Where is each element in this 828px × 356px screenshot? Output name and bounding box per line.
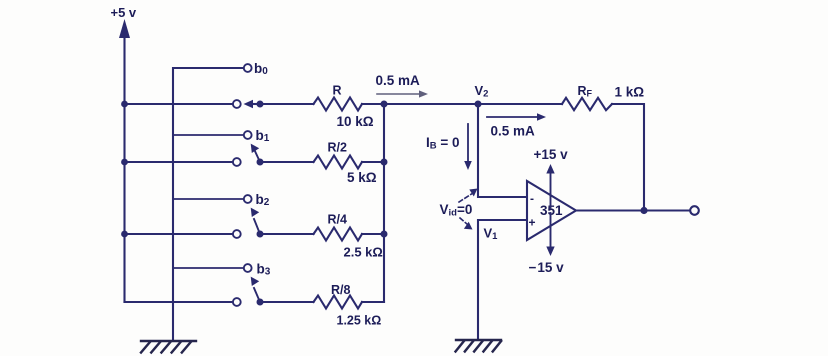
wire R/2 to summing bus (362, 161, 384, 163)
arrow 0.5 mA input current (377, 90, 428, 97)
node bus junction row0 (381, 101, 388, 108)
node b3 wiper dot (257, 299, 264, 306)
arrow IB bias current (464, 124, 472, 170)
svg-text:-: - (530, 192, 534, 206)
wire b0 stub (bus to b0 terminal) (173, 67, 243, 69)
switch b2 terminal b2 (244, 195, 252, 203)
node b2 wiper dot (257, 231, 264, 238)
+5V supply arrow (119, 19, 130, 302)
wire b2 stub (173, 198, 243, 200)
switch b1 wiper arrow (251, 144, 260, 162)
svg-text:R/2: R/2 (328, 141, 348, 155)
wire V2 down to inverting input (478, 104, 527, 197)
svg-text:1.25 kΩ: 1.25 kΩ (337, 314, 382, 328)
wire b2 wiper to resistor R/4 (260, 233, 314, 235)
node b1 wiper dot (257, 159, 264, 166)
svg-text:b1: b1 (256, 128, 270, 144)
resistor R/8 (314, 296, 363, 309)
svg-text:−15 v: −15 v (529, 260, 565, 275)
wire rail row3 (125, 301, 233, 303)
wire noninverting input to ground (478, 220, 527, 340)
wire R to summing bus (362, 103, 384, 105)
svg-text:Vid=0: Vid=0 (440, 202, 473, 219)
node V2 junction (475, 101, 482, 108)
ground G2 (456, 340, 502, 352)
wire RF to feedback corner (612, 104, 644, 211)
node b0 wiper dot (257, 101, 264, 108)
switch b1 throw terminal (233, 158, 241, 166)
svg-text:+: + (529, 216, 536, 230)
ground bus vertical wire (172, 68, 174, 341)
switch b0 terminal b0 (244, 64, 252, 72)
svg-text:V1: V1 (484, 226, 499, 243)
arrow +15 v supply (546, 164, 554, 208)
svg-text:RF: RF (578, 84, 593, 99)
svg-text:b3: b3 (257, 262, 271, 278)
op-amp U1 351 (527, 181, 576, 240)
wire bus to node V2 (384, 103, 478, 105)
switch b0 wiper arrow (244, 100, 261, 109)
node bus junction row1 (381, 159, 388, 166)
node output junction (640, 207, 647, 214)
node bus junction row2 (381, 231, 388, 238)
svg-text:2.5 kΩ: 2.5 kΩ (344, 245, 383, 260)
switch b2 throw terminal (233, 230, 241, 238)
svg-text:0.5 mA: 0.5 mA (491, 124, 536, 139)
wire b3 stub (173, 267, 243, 269)
arrow Vid lower dashed (460, 218, 473, 230)
svg-text:10 kΩ: 10 kΩ (337, 114, 374, 129)
arrow -15 v supply (546, 213, 554, 256)
switch b2 wiper arrow (251, 208, 260, 234)
svg-text:1 kΩ: 1 kΩ (615, 85, 645, 100)
wire summing bus vertical (383, 104, 385, 302)
wire rail row2 (125, 233, 233, 235)
svg-text:V2: V2 (475, 83, 489, 100)
node rail junction row0 (121, 101, 128, 108)
svg-text:+5 v: +5 v (111, 5, 137, 20)
terminal output (690, 206, 699, 215)
svg-text:R/8: R/8 (331, 283, 351, 297)
switch b3 throw terminal (233, 298, 241, 306)
switch b3 wiper arrow (251, 277, 260, 302)
wire R/8 to summing bus (362, 301, 384, 303)
switch b1 terminal b1 (244, 131, 252, 139)
resistor R/2 (314, 156, 363, 169)
arrow 0.5 mA feedback current (487, 113, 546, 121)
switch b3 terminal b3 (244, 264, 252, 272)
wire V2 to feedback resistor RF (478, 103, 562, 105)
arrow Vid upper dashed (459, 189, 478, 203)
svg-text:IB = 0: IB = 0 (426, 135, 460, 152)
switch b0 throw terminal (233, 100, 241, 108)
wire rail row0 (125, 103, 233, 105)
resistor RF (562, 98, 612, 110)
wire op-amp output (576, 209, 690, 211)
wire b3 wiper to resistor R/8 (260, 301, 314, 303)
wire rail row1 (125, 161, 233, 163)
wire R/4 to summing bus (362, 233, 384, 235)
svg-text:351: 351 (540, 203, 563, 218)
svg-text:+15 v: +15 v (534, 147, 569, 162)
svg-text:b0: b0 (254, 61, 268, 77)
node rail junction row1 (121, 159, 128, 166)
wire b1 wiper to resistor R/2 (260, 161, 314, 163)
svg-text:R: R (333, 84, 342, 98)
svg-text:0.5 mA: 0.5 mA (376, 73, 421, 88)
svg-text:b2: b2 (256, 192, 270, 208)
resistor R (314, 98, 363, 111)
resistor R/4 (314, 228, 363, 241)
wire b1 stub (173, 134, 243, 136)
wire b0 wiper to resistor R (260, 103, 314, 105)
node rail junction row2 (121, 231, 128, 238)
svg-text:5 kΩ: 5 kΩ (347, 170, 377, 185)
ground G1 (141, 341, 196, 353)
svg-text:R/4: R/4 (328, 213, 348, 227)
